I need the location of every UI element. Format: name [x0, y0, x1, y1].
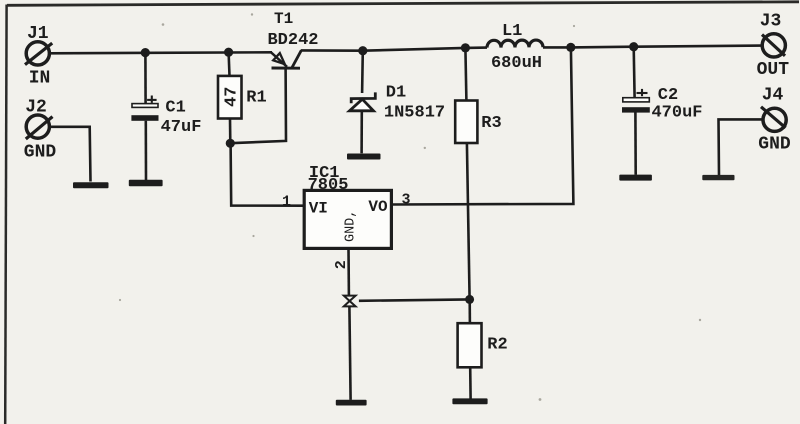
capacitor C2	[622, 47, 650, 175]
junction node R1 bottom	[226, 139, 235, 148]
ground J2	[73, 182, 109, 188]
svg-text:1N5817: 1N5817	[384, 104, 445, 123]
frame top border	[7, 2, 799, 6]
svg-text:3: 3	[401, 192, 410, 209]
node X hourglass	[344, 296, 356, 307]
wire J2 to ground	[50, 127, 91, 182]
junction node R1 top	[224, 48, 233, 57]
ground R2	[452, 398, 487, 404]
ground J4	[702, 175, 734, 180]
connector J4	[761, 107, 786, 132]
svg-text:47: 47	[223, 87, 242, 107]
svg-text:VO: VO	[368, 198, 388, 216]
svg-text:GND: GND	[24, 142, 57, 162]
wire GND pin2	[347, 248, 350, 295]
svg-text:680uH: 680uH	[491, 54, 542, 73]
svg-text:1: 1	[282, 193, 291, 210]
svg-text:T1: T1	[274, 10, 293, 28]
svg-text:470uF: 470uF	[651, 103, 702, 122]
connector J1	[25, 42, 52, 65]
ground C1	[129, 180, 163, 186]
wire VO pin3	[391, 48, 573, 205]
svg-text:J2: J2	[25, 97, 47, 117]
diode D1	[350, 51, 376, 154]
wire X to R2 node	[359, 299, 470, 300]
svg-text:J3: J3	[760, 12, 782, 32]
svg-text:R1: R1	[246, 89, 266, 108]
wire rail L1 to J3	[543, 46, 762, 48]
junction node D1 top	[358, 46, 367, 55]
svg-text:R2: R2	[487, 336, 507, 355]
svg-text:IN: IN	[29, 69, 51, 89]
wire J4 to ground	[719, 119, 763, 175]
svg-text:D1: D1	[386, 84, 406, 103]
ground pin2	[336, 400, 367, 406]
junction node L1 left	[461, 43, 470, 52]
wire X to ground	[349, 306, 350, 400]
svg-text:R3: R3	[481, 114, 501, 133]
svg-text:2: 2	[333, 260, 350, 269]
connector J2	[26, 115, 53, 139]
svg-text:C2: C2	[658, 86, 678, 105]
resistor R1	[218, 52, 242, 143]
junction node R2 top	[465, 295, 474, 304]
wire base T1	[230, 68, 286, 143]
svg-text:C1: C1	[165, 99, 185, 118]
transistor T1	[271, 50, 301, 68]
ground C2	[619, 175, 652, 181]
capacitor C1	[131, 53, 158, 181]
svg-text:L1: L1	[502, 22, 522, 41]
svg-text:GND: GND	[758, 135, 791, 155]
op-amp IC1 box	[304, 190, 391, 248]
resistor R2	[458, 299, 482, 398]
wire VI pin1	[231, 143, 305, 205]
svg-text:GND,: GND,	[343, 210, 358, 242]
ground D1	[347, 154, 381, 160]
svg-text:BD242: BD242	[267, 31, 318, 50]
svg-text:OUT: OUT	[757, 60, 790, 80]
svg-text:J4: J4	[762, 86, 784, 106]
resistor R3	[455, 48, 477, 300]
junction node C2 top	[629, 42, 638, 51]
label plus C1	[147, 96, 157, 103]
inductor L1	[487, 40, 543, 48]
wire rail T1 to L1	[301, 48, 487, 51]
wire input rail	[50, 52, 272, 53]
svg-text:VI: VI	[309, 199, 328, 217]
svg-text:7805: 7805	[308, 176, 349, 195]
label plus C2	[637, 89, 648, 96]
junction node L1 right	[566, 43, 575, 52]
svg-text:47uF: 47uF	[161, 118, 202, 137]
junction node C1 top	[141, 48, 150, 57]
frame left border	[5, 5, 6, 424]
svg-text:J1: J1	[27, 24, 49, 44]
paper specks	[119, 13, 701, 401]
connector J3	[762, 34, 785, 57]
